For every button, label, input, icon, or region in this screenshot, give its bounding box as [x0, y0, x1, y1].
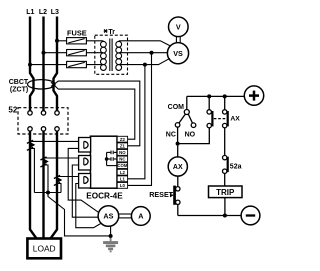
label CBCT [9, 79, 29, 86]
fuse F3 [67, 61, 87, 67]
node tap L2 [42, 51, 46, 55]
wire 52a to TRIP [224, 173, 226, 186]
wire L2 to CT window 2 [44, 157, 84, 159]
svg-text:L2: L2 [120, 170, 126, 175]
svg-text:(ZCT): (ZCT) [10, 86, 28, 93]
node rail branch 2 [223, 94, 227, 98]
selector arm to NO [188, 114, 192, 123]
node tap L1 [28, 63, 32, 67]
label ZCT [10, 86, 28, 93]
svg-text:NC: NC [119, 157, 125, 162]
svg-text:NO: NO [119, 150, 126, 155]
transformer Tr core [110, 39, 112, 72]
wire to terminal L1 [128, 65, 145, 179]
trip box [209, 186, 243, 198]
EOCR internal NC contact [107, 157, 118, 161]
node tap L3 [55, 39, 59, 43]
ammeter A [131, 207, 150, 226]
svg-text:NO: NO [185, 132, 196, 139]
svg-text:52a: 52a [230, 163, 242, 170]
label L1 [26, 9, 34, 16]
terminal L1 [117, 176, 127, 182]
wire CT window 1 to AS [68, 148, 99, 212]
wire L1 CT return stub [30, 148, 34, 192]
wire L2 CT return stub [44, 165, 49, 193]
EOCR-4E relay body [90, 136, 117, 188]
node rail branch 1 [207, 94, 211, 98]
wire fuse F2 to Tr [86, 52, 103, 54]
wire L1 to CT window 1 [30, 140, 84, 142]
fuse F1 [67, 38, 87, 44]
contactor 52 dashed enclosure [18, 108, 68, 134]
wire TRIP to bottom rail [224, 198, 226, 216]
svg-text:AS: AS [103, 212, 113, 221]
terminal Z1 [117, 143, 127, 149]
EOCR internal contact common node [105, 152, 109, 165]
svg-text:L0: L0 [120, 183, 126, 188]
control rail positive [187, 95, 245, 97]
EOCR CT window 1 [79, 138, 91, 153]
svg-text:L1: L1 [26, 9, 34, 16]
node AX junction [176, 142, 180, 146]
CT arrow phase L2 [40, 157, 48, 167]
svg-text:CBCT: CBCT [9, 79, 29, 86]
label AX contact [230, 116, 240, 123]
node bottom rail [223, 214, 227, 218]
selector COM point [184, 110, 189, 115]
svg-text:VS: VS [173, 49, 183, 58]
supply terminal plus [244, 86, 263, 105]
wire tap to fuse F1 [57, 40, 67, 42]
label *Tr [104, 29, 116, 36]
wire L3 to CT window 3 [57, 176, 84, 178]
contactor 52 pole contacts [28, 111, 59, 131]
wire phase L1 upper [30, 17, 34, 111]
wire secondary mid to VS [119, 52, 168, 54]
contact AX seal-in [207, 96, 214, 127]
wire secondary top to VS [119, 41, 171, 46]
EOCR CT window 2 [79, 156, 91, 171]
wire to terminal L0 [128, 53, 152, 186]
terminal COM [117, 163, 128, 169]
label RESET [149, 190, 174, 199]
label L3 [51, 9, 59, 16]
EOCR internal NO contact [107, 151, 118, 155]
wire rail to COM point [186, 96, 188, 109]
wire CBCT to terminal Z1 [51, 81, 140, 146]
wire tap to fuse F3 [30, 64, 67, 66]
svg-text:FUSE: FUSE [67, 28, 87, 37]
svg-text:Tr: Tr [108, 29, 115, 36]
EOCR internal COM wire [107, 165, 118, 167]
terminal NO [117, 150, 127, 156]
wire CT common to ground [48, 193, 111, 236]
svg-text:52: 52 [8, 105, 17, 114]
svg-text:NC: NC [166, 132, 176, 139]
wire phase L2 lower [42, 131, 44, 238]
transformer Tr dashed enclosure [95, 35, 128, 74]
label EOCR-4E [86, 191, 123, 200]
link V to VS [176, 37, 180, 43]
svg-text:L3: L3 [51, 9, 59, 16]
relay coil AX [168, 146, 187, 176]
CT arrow phase L1 [27, 140, 35, 150]
terminal Z2 [117, 136, 127, 142]
wire CT window 2 to AS [72, 165, 98, 217]
CBCT coil [28, 80, 56, 89]
label FUSE [67, 28, 87, 37]
node secondary mid [150, 51, 154, 55]
label L2 [39, 9, 47, 16]
label 52a [230, 163, 242, 170]
wire phase L3 lower [51, 131, 58, 238]
ground [103, 238, 118, 253]
label COM [168, 104, 185, 111]
voltmeter selector VS [167, 43, 188, 64]
terminal L0 [117, 183, 127, 189]
wire NC to AX node [177, 127, 179, 143]
wire secondary bottom to VS [119, 58, 170, 64]
label NC [166, 132, 176, 139]
svg-text:TRIP: TRIP [216, 188, 235, 197]
wire phase L3 upper [54, 17, 58, 111]
supply terminal minus [241, 206, 260, 225]
svg-text:L2: L2 [39, 9, 47, 16]
svg-text:COM: COM [117, 163, 127, 168]
svg-text:AX: AX [230, 116, 240, 123]
wire CT window 3 to AS [76, 184, 101, 228]
selector NO point [191, 123, 196, 128]
selector arm to NC [179, 114, 185, 123]
selector NC point [175, 123, 180, 128]
fuse F2 [67, 50, 87, 56]
label 52 [8, 105, 17, 114]
control rail negative [178, 215, 241, 217]
transformer Tr secondary winding [116, 41, 122, 70]
EOCR CT window 3 [79, 174, 91, 189]
wire CT common [34, 192, 61, 194]
mechanical link dashed [214, 118, 227, 120]
wire phase L1 lower [30, 131, 37, 238]
ground node [109, 226, 113, 238]
voltmeter V [169, 17, 189, 37]
svg-text:EOCR-4E: EOCR-4E [86, 191, 123, 200]
wire AX coil to RESET [177, 176, 179, 187]
wire L3 CT return stub [57, 184, 61, 193]
ammeter selector AS [98, 206, 119, 227]
terminal L2 [117, 169, 127, 175]
node secondary bottom [143, 63, 147, 67]
contact 52a [223, 155, 229, 173]
transformer Tr primary winding [101, 41, 107, 70]
wire AX node to seal branch [178, 128, 210, 144]
load box [27, 239, 61, 259]
svg-text:A: A [138, 212, 143, 221]
pushbutton RESET [171, 186, 180, 205]
terminal NC [117, 156, 127, 162]
svg-text:L1: L1 [120, 176, 126, 181]
wire fuse F3 to Tr [86, 64, 103, 66]
node CT common [46, 191, 50, 195]
wire fuse F1 to Tr [86, 40, 103, 42]
svg-text:LOAD: LOAD [33, 243, 56, 253]
svg-text:V: V [176, 23, 181, 32]
contact AX branch 2 [223, 96, 229, 155]
wire phase L2 upper [42, 17, 44, 111]
CT arrow phase L3 [54, 175, 62, 185]
wire RESET to bottom rail [177, 205, 179, 216]
wire tap to fuse F2 [44, 52, 67, 54]
svg-text:AX: AX [173, 164, 183, 171]
svg-text:Z1: Z1 [120, 143, 126, 148]
svg-text:COM: COM [168, 104, 185, 111]
label NO [185, 132, 196, 139]
svg-text:RESET: RESET [149, 190, 174, 199]
svg-text:Z2: Z2 [120, 137, 126, 142]
link AS to A [119, 214, 132, 218]
wire CBCT to terminal Z2 [51, 82, 135, 139]
